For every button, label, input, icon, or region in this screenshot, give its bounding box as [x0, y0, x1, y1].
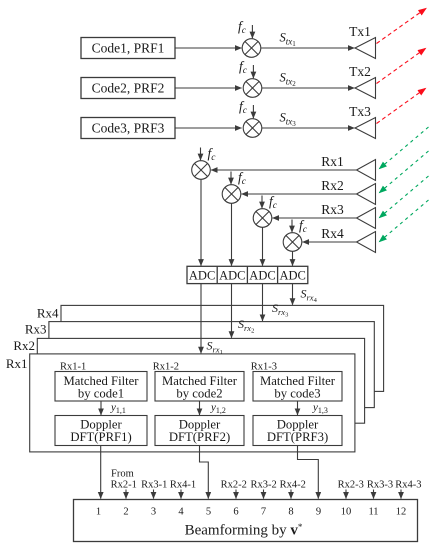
wire ADC2 to panel Rx2: [231, 284, 233, 338]
svg-text:fc: fc: [239, 99, 248, 117]
wire M3 to Tx3: [262, 127, 355, 129]
svg-text:1: 1: [96, 507, 101, 518]
svg-text:Rx1-3: Rx1-3: [251, 362, 277, 373]
svg-text:Code2, PRF2: Code2, PRF2: [92, 81, 165, 96]
mixer M4: [192, 161, 211, 180]
svg-text:Rx3-1: Rx3-1: [141, 480, 167, 491]
panel Rx1: [30, 354, 355, 452]
wire M5 to ADC2: [231, 203, 233, 265]
svg-text:DFT(PRF1): DFT(PRF1): [70, 430, 131, 444]
antenna Rx3: [357, 208, 376, 229]
fc arrow into M6: [261, 196, 263, 209]
svg-text:6: 6: [233, 507, 238, 518]
svg-text:ADC: ADC: [249, 269, 275, 283]
svg-text:Rx1-2: Rx1-2: [153, 362, 179, 373]
wire ADC4 to panel Rx4: [292, 284, 294, 305]
wire M7 to ADC4: [292, 251, 294, 265]
fc arrow into M1: [251, 25, 253, 38]
wire M4 to ADC1: [200, 179, 202, 265]
svg-text:DFT(PRF3): DFT(PRF3): [267, 430, 328, 444]
wire M2 to Tx2: [262, 87, 355, 89]
ADC bank: [187, 266, 308, 283]
svg-text:Rx1-1: Rx1-1: [60, 362, 86, 373]
svg-text:Rx1: Rx1: [6, 356, 28, 371]
wire Rx4 antenna to mixer M7: [303, 241, 357, 243]
box Doppler3: [253, 416, 342, 446]
svg-text:4: 4: [178, 507, 184, 518]
svg-text:fc: fc: [238, 170, 247, 188]
stub arrow input4: [180, 490, 182, 499]
svg-text:2: 2: [123, 507, 128, 518]
fc arrow into M4: [200, 148, 202, 161]
svg-text:Rx2-1: Rx2-1: [111, 480, 137, 491]
svg-text:5: 5: [206, 507, 211, 518]
wire Rx3 antenna to mixer M6: [273, 217, 357, 219]
svg-text:8: 8: [288, 507, 293, 518]
fc arrow into M7: [291, 220, 293, 233]
svg-text:by code2: by code2: [176, 387, 222, 401]
wire Code2 to mixer: [175, 87, 242, 89]
svg-text:Rx3: Rx3: [25, 322, 47, 337]
mixer M1: [242, 39, 261, 58]
mixer M5: [222, 185, 241, 204]
box Matched Filter 2: [155, 372, 244, 402]
fc arrow into M3: [252, 105, 254, 118]
green echo into Rx2: [379, 151, 429, 193]
svg-text:fc: fc: [239, 59, 248, 77]
antenna Tx3: [355, 118, 376, 139]
svg-text:12: 12: [396, 507, 407, 518]
stub arrow input8: [290, 490, 292, 499]
box Code1,PRF1: [81, 38, 175, 59]
svg-text:Tx2: Tx2: [349, 64, 371, 79]
svg-text:9: 9: [316, 507, 321, 518]
panel Rx2: [37, 338, 364, 423]
svg-text:Tx3: Tx3: [349, 104, 371, 119]
svg-text:Code3, PRF3: Code3, PRF3: [92, 121, 165, 136]
svg-text:Stx3: Stx3: [280, 111, 297, 129]
label input numbers: [96, 507, 406, 518]
red beam from Tx2: [377, 48, 427, 84]
wire MF2 to Doppler2: [199, 401, 201, 415]
svg-text:Rx3-3: Rx3-3: [367, 480, 393, 491]
box Matched Filter 3: [253, 372, 342, 402]
svg-text:Rx4: Rx4: [37, 306, 59, 321]
wire Code1 to mixer: [175, 47, 242, 49]
wire Doppler3 to beamformer input9: [298, 446, 319, 499]
fc arrow into M5: [230, 172, 232, 185]
svg-text:Rx3-2: Rx3-2: [250, 480, 276, 491]
antenna Rx2: [357, 184, 376, 205]
panel Rx3: [49, 322, 374, 408]
red beam from Tx1: [377, 8, 427, 44]
antenna Tx2: [355, 78, 376, 99]
svg-text:Tx1: Tx1: [349, 24, 371, 39]
green echo into Rx4: [379, 200, 429, 242]
svg-text:Rx2-2: Rx2-2: [221, 480, 247, 491]
mixer M7: [283, 233, 302, 252]
svg-text:10: 10: [341, 507, 352, 518]
svg-text:by code1: by code1: [78, 387, 124, 401]
wire MF3 to Doppler3: [297, 401, 299, 415]
fc arrow into M2: [252, 65, 254, 78]
svg-text:ADC: ADC: [189, 269, 215, 283]
antenna Tx1: [355, 38, 376, 59]
red beam from Tx3: [377, 88, 427, 124]
green echo into Rx3: [379, 176, 429, 218]
svg-text:Stx1: Stx1: [280, 31, 297, 49]
wire Doppler2 to beamformer input5: [200, 446, 209, 499]
svg-text:ADC: ADC: [219, 269, 245, 283]
stub arrow input12: [400, 490, 402, 499]
box Doppler2: [155, 416, 244, 446]
stub arrow input2: [125, 490, 127, 499]
svg-text:DFT(PRF2): DFT(PRF2): [169, 430, 230, 444]
svg-text:From: From: [111, 469, 134, 480]
svg-text:Beamforming by v*: Beamforming by v*: [185, 522, 303, 539]
wire MF1 to Doppler1: [100, 401, 102, 415]
svg-text:fc: fc: [238, 19, 247, 37]
svg-text:Rx4-2: Rx4-2: [280, 480, 306, 491]
stub arrow input10: [345, 490, 347, 499]
svg-text:fc: fc: [208, 146, 217, 164]
wire Doppler1 to beamformer input1: [100, 446, 102, 499]
svg-text:Rx4: Rx4: [321, 226, 344, 241]
wire Rx2 antenna to mixer M5: [242, 193, 357, 195]
svg-text:Rx3: Rx3: [321, 202, 344, 217]
box Matched Filter 1: [55, 372, 147, 402]
mixer M3: [243, 119, 262, 138]
svg-text:7: 7: [261, 507, 266, 518]
svg-text:11: 11: [368, 507, 378, 518]
wire ADC1 to panel Rx1: [200, 284, 202, 354]
svg-text:ADC: ADC: [279, 269, 305, 283]
svg-text:Stx2: Stx2: [280, 71, 297, 89]
wire Rx1 antenna to mixer M4: [211, 169, 357, 171]
stub arrow input6: [235, 490, 237, 499]
panel Rx4: [61, 305, 384, 391]
svg-text:fc: fc: [299, 218, 308, 236]
wire Code3 to mixer: [175, 127, 242, 129]
box Code2,PRF2: [81, 78, 175, 99]
stub arrow input11: [373, 490, 375, 499]
svg-text:Rx4-1: Rx4-1: [170, 480, 196, 491]
box Beamforming: [74, 500, 418, 542]
svg-text:Rx2-3: Rx2-3: [338, 480, 364, 491]
svg-text:by code3: by code3: [274, 387, 320, 401]
mixer M2: [243, 79, 262, 98]
box Doppler1: [55, 416, 147, 446]
antenna Rx1: [357, 160, 376, 181]
mixer M6: [253, 209, 272, 228]
stub arrow input3: [153, 490, 155, 499]
svg-text:Code1, PRF1: Code1, PRF1: [92, 41, 165, 56]
wire M6 to ADC3: [262, 227, 264, 265]
stub arrow input7: [263, 490, 265, 499]
svg-text:Rx4-3: Rx4-3: [395, 480, 421, 491]
antenna Rx4: [357, 232, 376, 253]
box Code3,PRF3: [81, 118, 175, 139]
svg-text:Rx2: Rx2: [321, 178, 344, 193]
svg-text:fc: fc: [269, 194, 278, 212]
svg-text:Rx2: Rx2: [13, 338, 35, 353]
svg-text:3: 3: [151, 507, 156, 518]
wire M1 to Tx1: [261, 47, 355, 49]
svg-text:Rx1: Rx1: [321, 154, 344, 169]
wire ADC3 to panel Rx3: [262, 284, 264, 321]
green echo into Rx1: [379, 127, 429, 169]
svg-text:Srx4: Srx4: [301, 287, 318, 305]
